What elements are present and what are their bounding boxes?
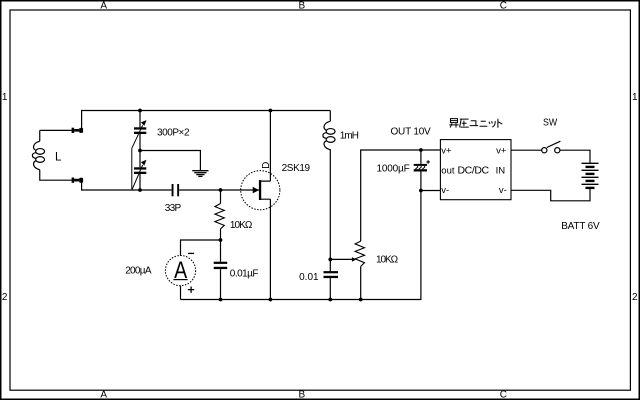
wire box v+ to switch [511, 149, 542, 151]
svg-text:0.01µF: 0.01µF [230, 268, 259, 279]
svg-text:1mH: 1mH [340, 131, 359, 142]
svg-text:2SK19: 2SK19 [282, 163, 311, 174]
wire battery bottom return [511, 189, 590, 201]
svg-text:v+: v+ [496, 145, 507, 156]
svg-text:A: A [100, 390, 107, 400]
svg-text:2: 2 [632, 292, 638, 303]
svg-text:SW: SW [543, 117, 558, 128]
wire gate node down through resistor to 0.01uF [220, 190, 222, 300]
svg-text:200µA: 200µA [125, 265, 152, 276]
svg-text:v-: v- [441, 185, 449, 196]
svg-text:OUT 10V: OUT 10V [391, 127, 432, 138]
junction: v+ node / 1000uF top [419, 148, 423, 152]
svg-text:B: B [298, 390, 305, 400]
resistor R1 10KΩ [215, 204, 224, 229]
svg-text:1000µF: 1000µF [377, 163, 410, 174]
svg-text:1: 1 [2, 92, 8, 103]
svg-text:300P×2: 300P×2 [157, 128, 190, 139]
wire 1000uF stems [420, 150, 422, 191]
variable capacitor C2 300P (bottom section) [132, 148, 147, 190]
inductor 1mH [323, 111, 335, 152]
junction: 0.01 bottom / bottom rail [328, 298, 332, 302]
svg-text:0.01: 0.01 [299, 272, 319, 283]
DC/DC unit box [440, 140, 511, 200]
wire v- to box [421, 190, 441, 192]
svg-text:out: out [441, 165, 455, 176]
junction: 0.01uF bottom / bottom rail [219, 298, 223, 302]
svg-text:IN: IN [496, 165, 506, 176]
junction: FET drain / top rail [269, 109, 273, 113]
variable capacitor C1 300P (top section) [132, 111, 147, 151]
wire L top [40, 130, 72, 141]
ground [192, 171, 208, 177]
junction: 1mH bottom / wiper tap [328, 258, 332, 262]
capacitor 0.01 [324, 271, 339, 278]
meter M1 200µA [165, 256, 195, 286]
junction: variable capacitor top / top rail [138, 109, 142, 113]
wire FET source down [269, 199, 271, 299]
wire bottom rail [181, 191, 421, 300]
wire 1mH vertical down to 0.01 and bottom [329, 151, 331, 300]
svg-text:33P: 33P [165, 203, 182, 214]
capacitor 33P [172, 184, 179, 196]
junction: potentiometer bottom / bottom rail [359, 298, 363, 302]
svg-text:BATT 6V: BATT 6V [561, 221, 600, 232]
wire ground stub [140, 151, 200, 171]
wire pot bottom [360, 266, 362, 299]
wire FET drain up [269, 111, 271, 182]
svg-text:v-: v- [499, 185, 507, 196]
capacitor 0.01µF [214, 262, 228, 269]
transistor Q1 2SK19 [241, 171, 280, 210]
svg-text:L: L [55, 152, 62, 164]
battery BATT 6V [582, 163, 599, 188]
wire L bottom [40, 170, 72, 181]
junction: variable capacitor midpoint / ground tap [138, 149, 142, 153]
wire meter top lead [181, 240, 221, 256]
junction: FET source / bottom rail [269, 298, 273, 302]
junction: variable capacitor bottom / gate wire [138, 188, 142, 192]
wire bottom plug down and across to gate [82, 182, 259, 190]
svg-text:1: 1 [632, 92, 638, 103]
wire meter bottom lead [180, 286, 182, 300]
wiper arrow [330, 257, 356, 262]
svg-text:D: D [261, 162, 272, 169]
plug bottom [72, 178, 84, 183]
svg-text:10KΩ: 10KΩ [230, 220, 253, 231]
svg-text:2: 2 [2, 292, 8, 303]
svg-text:v+: v+ [441, 145, 452, 156]
switch SW [542, 141, 561, 153]
label 昇圧ユニット (boost unit) [449, 119, 502, 128]
svg-text:C: C [500, 0, 507, 11]
wire top from plug up and across to 1mH [82, 111, 331, 129]
svg-text:A: A [100, 0, 107, 11]
wire v+ rail to pot [361, 150, 441, 241]
junction: v- node / 1000uF bottom [419, 189, 423, 193]
plug top [72, 128, 84, 133]
svg-text:10KΩ: 10KΩ [376, 255, 399, 266]
junction: R1 bottom / meter / 0.01uF top [219, 238, 223, 242]
svg-text:DC/DC: DC/DC [458, 165, 490, 177]
junction: gate node (33P / R1 top) [219, 188, 223, 192]
svg-text:C: C [500, 390, 507, 400]
capacitor 1000µF [414, 160, 430, 171]
wire switch to battery [560, 150, 590, 163]
inductor L [32, 141, 44, 169]
potentiometer VR1 10KΩ [355, 241, 364, 266]
svg-text:B: B [298, 0, 305, 11]
